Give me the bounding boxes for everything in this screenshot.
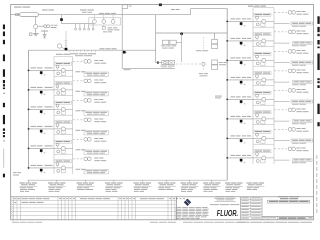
label motor L4	[94, 119, 106, 123]
breaker CB-L6	[40, 169, 45, 173]
drawout breaker 52A	[162, 61, 168, 65]
title block frame	[176, 197, 262, 220]
overload OL R6	[256, 121, 265, 124]
label motor L6	[94, 158, 106, 162]
breaker CB-R3	[240, 61, 246, 65]
wire feeder R8	[227, 157, 253, 159]
label motor R7	[297, 128, 309, 132]
motor M-R3	[288, 50, 295, 54]
svg-text:FLUOR.: FLUOR.	[217, 208, 238, 218]
bucket label box R8	[254, 150, 271, 153]
wire motor branch L5	[73, 138, 83, 140]
ground	[33, 34, 39, 36]
current transformer CT1	[44, 25, 50, 28]
VFD bucket divider R1	[253, 7, 274, 9]
label feeder L4	[31, 126, 53, 127]
wire bucket line R5	[253, 98, 274, 100]
node bus tap R3	[226, 60, 228, 62]
wire metering bus	[62, 23, 94, 25]
label motor L1	[94, 60, 106, 64]
label motor R6	[297, 109, 309, 113]
MCC bucket divider L6	[54, 153, 73, 155]
breaker CB-R4	[240, 81, 246, 85]
VFD bucket divider R8	[253, 143, 274, 145]
label feeder R1	[231, 18, 252, 19]
label load tag L2	[76, 91, 109, 96]
label 2300-SWGR-001	[70, 53, 96, 56]
label load tag R2	[292, 42, 312, 47]
overload OL L1	[57, 72, 66, 75]
note text lower left	[13, 172, 21, 175]
label load tag R3	[291, 61, 313, 66]
bus 2300-MCC-001 vertical	[28, 50, 30, 169]
station service box SS1	[163, 40, 169, 44]
label motor R5	[297, 89, 309, 93]
wire feeder R2	[227, 40, 253, 42]
label MCC column header	[56, 54, 70, 55]
VFD bucket divider R5	[253, 85, 274, 87]
node bus tap R7	[226, 138, 228, 140]
wire feeder L1	[29, 69, 55, 71]
overload OL R8	[256, 160, 265, 163]
wire feeder L2	[29, 89, 55, 91]
node bus tap L6	[28, 167, 30, 169]
CT R5	[256, 94, 259, 99]
wire bucket line R6	[253, 118, 274, 120]
label motor L3	[94, 99, 106, 103]
plot stamp bottom left	[12, 221, 42, 224]
contactor R1	[262, 19, 266, 23]
revision row 2 text	[14, 202, 43, 203]
CT L5	[56, 143, 59, 148]
label on swgr bus	[100, 48, 117, 49]
plot stamp bottom middle	[150, 221, 176, 224]
disclaimer fine print	[176, 207, 209, 219]
label load tag L4	[76, 130, 109, 135]
bucket label box R2	[254, 33, 271, 36]
overload OL R4	[256, 82, 265, 85]
contactor R2	[262, 39, 266, 43]
bucket label box R1	[254, 13, 271, 16]
wire feeder L6	[29, 167, 55, 169]
label above incoming line	[42, 10, 54, 11]
motor M-R2	[288, 30, 295, 34]
wire bucket line R8	[253, 157, 274, 159]
label arrester	[41, 30, 48, 33]
label load tag L5	[76, 149, 109, 154]
contactor R3	[262, 58, 266, 62]
VFD bucket divider R3	[253, 46, 274, 48]
match line tick (top border)	[159, 4, 162, 7]
wire load branch R1	[274, 23, 290, 25]
wire bucket line L6	[54, 167, 73, 169]
wire dash-dot link	[176, 63, 202, 65]
VFD column rails	[253, 8, 274, 164]
match line dashes (left margin)	[3, 25, 5, 178]
label load tag L1	[76, 71, 109, 76]
bucket label box L6	[55, 160, 72, 163]
label load tag R5	[291, 100, 313, 105]
drawing number strip	[262, 216, 313, 220]
wire motor branch R6	[274, 109, 287, 111]
label 480V system	[196, 49, 208, 52]
CT R7	[256, 133, 259, 138]
label 480-TR	[199, 73, 208, 76]
wire feeder L4	[29, 128, 55, 130]
overload OL L6	[57, 170, 66, 173]
wire motor branch R5	[274, 89, 287, 91]
off-page connector box (top)	[122, 5, 127, 9]
wire drop to TR1	[214, 33, 216, 39]
overload OL R7	[256, 140, 265, 143]
bucket label box R3	[254, 52, 271, 55]
overload OL L3	[57, 111, 66, 114]
wire feeder R3	[227, 59, 253, 61]
wire bucket line R1	[253, 20, 274, 22]
wire bucket line R7	[253, 137, 274, 139]
motor M-R1	[288, 11, 295, 15]
label relay	[103, 27, 120, 32]
wire motor branch R2	[274, 31, 287, 33]
potential transformer PT2	[57, 44, 64, 49]
bucket label box R7	[254, 130, 271, 133]
breaker CB-R1	[240, 22, 246, 26]
wire feeder R7	[227, 137, 253, 139]
motor M-R7	[288, 128, 295, 132]
node bus tap L5	[28, 148, 30, 150]
bucket label box L4	[55, 121, 72, 124]
VFD bucket divider R6	[253, 104, 274, 106]
arrester bank (5 taps)	[75, 24, 95, 31]
node J3	[180, 32, 183, 35]
bucket label box L1	[55, 62, 72, 65]
bucket label box L3	[55, 101, 72, 104]
wire load branch R5	[274, 101, 290, 103]
label motor R3	[297, 50, 309, 54]
label feeder L6	[31, 165, 53, 166]
wire motor branch L2	[73, 80, 83, 82]
node bus tap L1	[28, 70, 30, 72]
contactor R6	[262, 117, 266, 121]
motor M-R5	[288, 89, 295, 93]
wire riser x=155.7	[155, 15, 157, 63]
contactor L4	[61, 127, 65, 131]
revision row 1 text	[14, 198, 185, 199]
breaker CB-L2	[40, 91, 45, 95]
CT R6	[256, 114, 259, 119]
surge capacitor C1	[43, 30, 46, 38]
label 480V board	[124, 68, 131, 71]
label above metering	[99, 12, 116, 15]
MCC bucket divider L3	[54, 95, 73, 97]
label bus tie	[80, 10, 94, 13]
overload OL R5	[256, 101, 265, 104]
meter A	[93, 15, 97, 24]
bucket label box R6	[254, 111, 271, 114]
wire bucket line L5	[54, 147, 73, 149]
wire load branch R7	[274, 140, 290, 142]
CT R3	[256, 55, 259, 60]
wire motor branch L1	[73, 60, 83, 62]
CT L1	[56, 65, 59, 70]
motor M-R4	[288, 69, 295, 73]
CT R8	[256, 153, 259, 158]
MCC bucket divider L4	[54, 114, 73, 116]
MCC bucket divider L5	[54, 134, 73, 136]
meter C	[111, 15, 115, 24]
wire contact drop	[203, 66, 205, 72]
label breakers	[161, 66, 175, 69]
label feeder R7	[231, 135, 252, 136]
wire riser to swgr node	[65, 31, 68, 48]
node bus tap L3	[28, 109, 30, 111]
contactor R8	[262, 156, 266, 160]
meter box M1	[29, 33, 32, 36]
overload OL R2	[256, 43, 265, 46]
wire 480V board bottom	[122, 67, 175, 69]
node bus tap L2	[28, 89, 30, 91]
MCC bucket divider L1	[54, 56, 73, 58]
breaker 52T	[123, 51, 127, 54]
utility cable capsule W1	[20, 13, 39, 17]
wire motor branch R3	[274, 50, 287, 52]
label load tag R8	[292, 159, 312, 164]
node swgr main	[65, 48, 68, 51]
feeder stubs on swgr bus	[70, 50, 96, 52]
node bus tap R2	[226, 40, 228, 42]
wire bus continuation line	[28, 179, 228, 181]
plot stamp bottom center-right	[183, 221, 245, 224]
label load tag R4	[292, 81, 312, 86]
breaker 52J (main riser)	[60, 15, 63, 24]
company name text	[210, 196, 240, 205]
wire load branch R8	[274, 159, 290, 161]
label FUTURE (top right)	[248, 6, 266, 7]
bucket label box L2	[55, 82, 72, 85]
MCC bucket divider L2	[54, 75, 73, 77]
node J2	[157, 61, 159, 63]
label line segment	[171, 9, 180, 10]
wire incoming lead	[11, 14, 20, 16]
label motor R2	[297, 31, 309, 35]
wire gray dashed PT lead	[202, 37, 204, 52]
label feeder L3	[31, 106, 53, 107]
motor M-L2	[84, 79, 91, 83]
bus 2300-SWGR-001 horizontal	[29, 49, 65, 51]
label FROM UTILITY	[14, 7, 30, 8]
drawing title text	[268, 196, 310, 203]
bus 2300-SWGR-002 vertical	[226, 9, 228, 180]
label motor L2	[94, 80, 106, 84]
revision table	[11, 197, 314, 221]
wire drop to 480V board	[121, 9, 123, 69]
node bus tap R1	[226, 21, 228, 23]
wire feeder L5	[29, 147, 55, 149]
node bus tap R6	[226, 118, 228, 120]
wire motor branch L6	[73, 158, 83, 160]
node bus tap R5	[226, 99, 228, 101]
contactor L2	[61, 88, 65, 92]
breaker CB-L4	[40, 130, 45, 134]
bucket label box R4	[254, 72, 271, 75]
contactor L5	[61, 146, 65, 150]
CT R2	[256, 36, 259, 41]
wire motor branch R8	[274, 148, 287, 150]
wire motor branch R4	[274, 70, 287, 72]
transformer TR2	[212, 60, 218, 69]
wire bucket line L1	[54, 69, 73, 71]
contactor L6	[61, 166, 65, 170]
contactor L1	[61, 68, 65, 72]
wire drop to PT	[35, 16, 37, 24]
feeder schedule columns	[20, 180, 265, 192]
wire load branch R4	[274, 81, 290, 83]
label load tag R1	[291, 22, 313, 27]
contactor R4	[262, 78, 266, 82]
approval fields	[241, 197, 263, 219]
node bus tap L4	[28, 128, 30, 130]
label motor R1	[297, 11, 309, 15]
match line dashes (right margin)	[317, 16, 319, 126]
bucket label box R5	[254, 91, 271, 94]
label TR2	[219, 62, 227, 65]
wire distribution line 33	[156, 32, 228, 34]
CT R1	[256, 16, 259, 21]
breaker CB-R2	[240, 42, 246, 46]
breaker CB-R6	[240, 120, 246, 124]
CT L2	[56, 85, 59, 90]
motor M-L3	[84, 99, 91, 103]
FLUOR diamond logo	[184, 199, 191, 206]
plot stamp bottom right	[238, 221, 312, 224]
breaker CB-R5	[240, 100, 246, 104]
label motor L5	[94, 138, 106, 142]
wire PT to ground	[35, 29, 37, 34]
breaker CB-R7	[240, 139, 246, 143]
label feeder R3	[231, 57, 252, 58]
plot stamp right margin	[316, 155, 317, 213]
wire bucket line R2	[253, 40, 274, 42]
label CT ratio	[51, 25, 58, 28]
contactor R7	[262, 136, 266, 140]
label motor R8	[297, 148, 309, 152]
label feeder L2	[31, 87, 53, 88]
motor M-L4	[84, 118, 91, 122]
note text	[215, 96, 222, 99]
VFD bucket divider R2	[253, 26, 274, 28]
label load tag L6	[76, 169, 109, 174]
bucket label box L5	[55, 140, 72, 143]
CT R4	[256, 75, 259, 80]
overload OL R3	[256, 62, 265, 65]
motor M-R8	[288, 147, 295, 151]
relay below meters	[102, 25, 105, 29]
wire load branch R3	[274, 62, 290, 64]
transformer TR1	[212, 39, 218, 48]
label feeder R2	[231, 38, 252, 39]
contact K1	[202, 62, 205, 65]
breaker CB-L3	[40, 110, 45, 114]
wire bucket line R3	[253, 59, 274, 61]
contactor R5	[262, 97, 266, 101]
wire feeder R6	[227, 118, 253, 120]
wire bucket line R4	[253, 79, 274, 81]
breaker CB-R8	[240, 159, 246, 163]
contactor L3	[61, 107, 65, 111]
wire feeder R4	[227, 79, 253, 81]
drawout breaker 52B	[168, 61, 174, 65]
wire feeder L3	[29, 108, 55, 110]
breaker CB-L1	[40, 71, 45, 75]
wire PT to CT	[38, 25, 44, 27]
metering enclosure	[89, 18, 121, 25]
label motor R4	[297, 70, 309, 74]
label feeder R6	[231, 116, 252, 117]
potential transformer PT1	[34, 25, 38, 29]
CT L6	[56, 163, 59, 168]
meter B	[102, 15, 106, 24]
label load tag R6	[292, 120, 312, 125]
label feeder R5	[231, 96, 252, 97]
MCC column rails	[54, 57, 73, 174]
wire feeder R1	[227, 20, 253, 22]
overload OL R1	[256, 23, 265, 26]
wire main incoming line	[38, 9, 227, 15]
overload OL L2	[57, 92, 66, 95]
wire bucket line L3	[54, 108, 73, 110]
overload OL L5	[57, 150, 66, 153]
CT L3	[56, 104, 59, 109]
wire feeder R5	[227, 98, 253, 100]
wire to drawout breakers	[156, 62, 162, 64]
wire bucket line L2	[54, 89, 73, 91]
wire motor branch L3	[73, 99, 83, 101]
node bus tap R8	[226, 157, 228, 159]
label feeder R4	[231, 77, 252, 78]
motor M-L1	[84, 60, 91, 64]
breaker CB-L5	[40, 149, 45, 153]
overload OL L4	[57, 131, 66, 134]
motor M-R6	[288, 108, 295, 112]
terminal box	[16, 14, 19, 16]
wire bucket line L4	[54, 128, 73, 130]
wire motor branch L4	[73, 119, 83, 121]
VFD bucket divider R7	[253, 124, 274, 126]
label load tag R7	[291, 139, 313, 144]
wire motor branch R7	[274, 128, 287, 130]
label feeder L5	[31, 145, 53, 146]
VFD bucket divider R4	[253, 65, 274, 67]
label load tag L3	[76, 110, 109, 115]
label feeder R8	[231, 155, 252, 156]
wire load branch R6	[274, 120, 290, 122]
motor M-L5	[84, 138, 91, 142]
wire motor branch R1	[274, 11, 287, 13]
label feeder L1	[31, 67, 53, 68]
label station service	[161, 45, 176, 48]
node bus tap R4	[226, 79, 228, 81]
wire drop to station transformers	[176, 33, 181, 62]
CT L4	[56, 124, 59, 129]
station service box SS2	[170, 40, 176, 44]
wire load branch R2	[274, 42, 290, 44]
motor M-L6	[84, 157, 91, 161]
